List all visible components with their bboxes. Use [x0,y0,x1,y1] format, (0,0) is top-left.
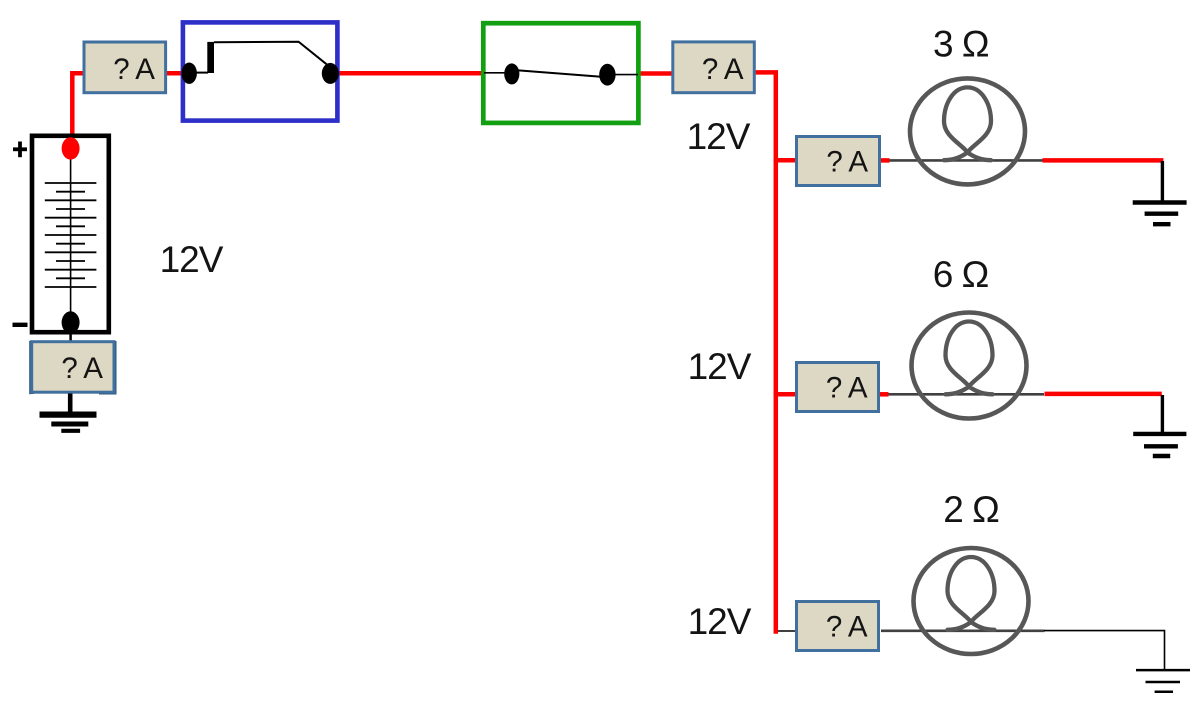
svg-text:2 Ω: 2 Ω [943,489,999,530]
svg-text:12V: 12V [160,239,224,280]
svg-text:12V: 12V [688,601,752,642]
svg-text:? A: ? A [113,53,155,86]
svg-text:? A: ? A [826,372,868,405]
svg-text:? A: ? A [826,146,868,179]
svg-text:12V: 12V [687,116,751,157]
svg-text:3 Ω: 3 Ω [933,23,989,64]
svg-text:6 Ω: 6 Ω [933,254,989,295]
svg-text:? A: ? A [826,611,868,644]
svg-text:? A: ? A [61,352,103,385]
svg-text:? A: ? A [702,53,744,86]
svg-text:12V: 12V [688,346,752,387]
